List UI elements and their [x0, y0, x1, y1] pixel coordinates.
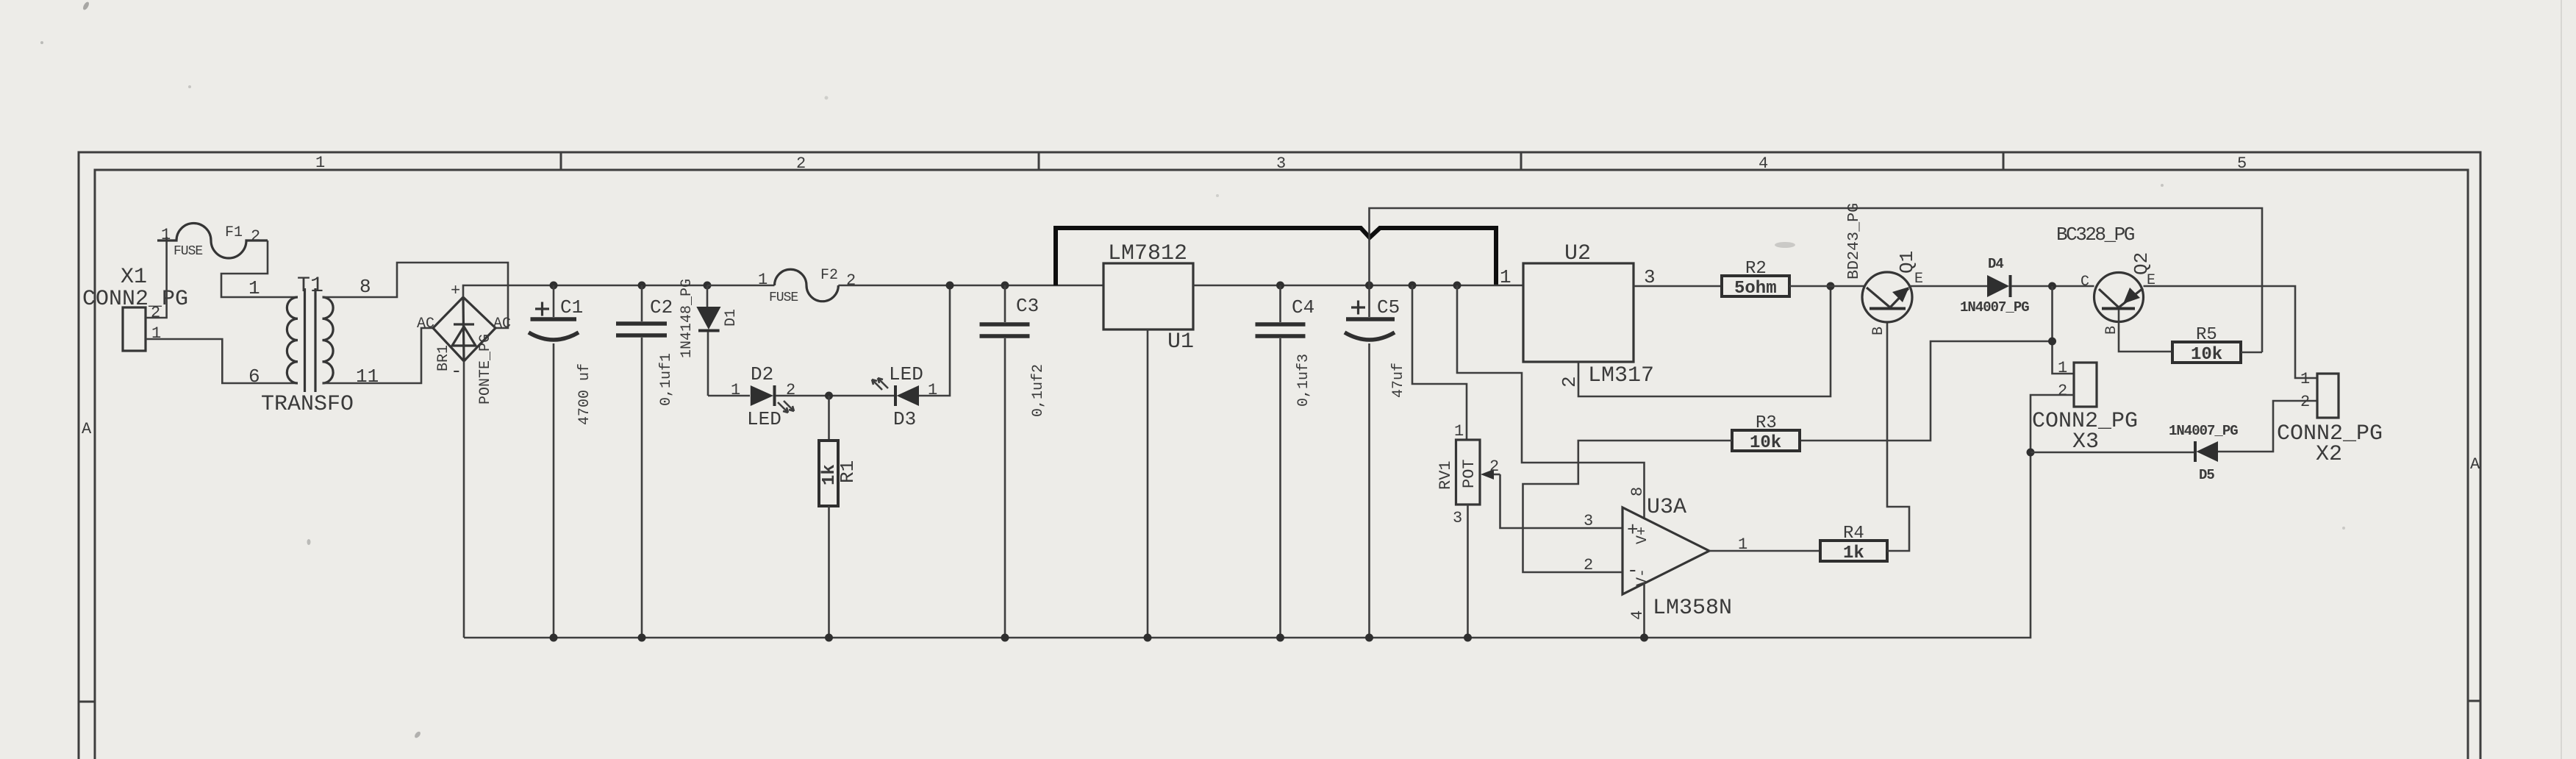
svg-text:R2: R2 [1745, 259, 1767, 279]
junction RV1 feed rail [1409, 282, 1417, 290]
junction R1 bus [825, 634, 833, 642]
svg-text:LM7812: LM7812 [1108, 241, 1187, 266]
svg-text:1N4007_PG: 1N4007_PG [2169, 423, 2238, 439]
svg-text:D3: D3 [893, 408, 916, 430]
potentiometer RV1 [1437, 422, 1500, 527]
resistor R1 [819, 396, 859, 638]
svg-text:BD243_PG: BD243_PG [1845, 203, 1863, 279]
svg-text:2: 2 [796, 154, 806, 173]
svg-text:R4: R4 [1843, 524, 1864, 544]
svg-text:5: 5 [2237, 154, 2247, 173]
wire T1 pin11 to BR1 AC left [323, 328, 434, 383]
thick black wire (pen edit) input bypass to U2 pin1 [1056, 228, 1496, 285]
svg-text:1: 1 [1500, 266, 1511, 288]
svg-text:10k: 10k [1750, 433, 1781, 453]
svg-text:FUSE: FUSE [769, 291, 798, 305]
resistor R3 [1732, 413, 1800, 453]
svg-text:5ohm: 5ohm [1734, 279, 1777, 299]
svg-text:2: 2 [251, 227, 260, 246]
svg-text:AC: AC [417, 316, 434, 332]
junction R3 node [2048, 338, 2056, 346]
rail D1 to fuse F2 [707, 285, 775, 287]
junction R1 top [825, 392, 833, 400]
wire rail to RV1 pin1 [1412, 285, 1467, 440]
junction D1 rail [704, 282, 712, 290]
resistor R5 [2172, 325, 2241, 365]
svg-text:1N4007_PG: 1N4007_PG [1960, 299, 2029, 316]
zone tick 1|2 [560, 152, 562, 170]
Q2 base bar [2102, 307, 2135, 310]
svg-text:T1: T1 [297, 274, 323, 299]
svg-text:B: B [2103, 326, 2120, 335]
junction C4 rail [1276, 282, 1284, 290]
junction C1 rail [550, 282, 558, 290]
svg-text:BC328_PG: BC328_PG [2056, 224, 2134, 246]
junction U3A pin4 bus [1640, 634, 1648, 642]
svg-text:1: 1 [248, 277, 260, 299]
resistor R2 [1722, 259, 1789, 299]
RV1 wiper arrow [1491, 474, 1500, 476]
wire RV1 pin3 to bus [1467, 505, 1469, 638]
T1 core [304, 288, 306, 392]
svg-text:1k: 1k [1843, 544, 1864, 563]
C5 plus sign [1351, 301, 1365, 315]
Q1 base bar [1870, 307, 1906, 310]
svg-text:0,1uf2: 0,1uf2 [1030, 364, 1047, 417]
ground bus [464, 452, 2031, 638]
wire R4 right to Q1 base [1887, 322, 1909, 551]
wire ground node to D5 [2031, 452, 2195, 454]
LED D3 [872, 363, 937, 430]
transistor Q2 BC328 [2056, 224, 2155, 335]
svg-text:A: A [82, 420, 92, 438]
transformer T1 [248, 274, 379, 417]
svg-text:1: 1 [758, 271, 768, 289]
wire rail to U3A pin8 [1457, 285, 1645, 519]
svg-text:LED: LED [747, 408, 781, 430]
svg-text:B: B [1870, 327, 1887, 335]
wire R3 right vertical [1800, 341, 2053, 441]
junction RV1 bus [1464, 634, 1472, 642]
wire Q2 base to R5 [2119, 310, 2172, 352]
wire U2 pin3 to R2 [1634, 285, 1722, 288]
capacitor C4 [1256, 285, 1315, 638]
svg-text:3: 3 [1276, 154, 1286, 173]
svg-text:2: 2 [151, 304, 160, 322]
wire RV1 wiper to U3A pin3 [1500, 474, 1623, 528]
resistor R4 [1820, 524, 1887, 563]
wire BR1 minus to ground bus [463, 361, 465, 638]
wire U2 pin2 loop to R2 output node [1578, 286, 1831, 396]
svg-text:1: 1 [161, 226, 171, 244]
zone tick 4|5 [2003, 152, 2005, 170]
Q2 emitter line with arrow [2119, 288, 2143, 307]
svg-text:V-: V- [1634, 569, 1651, 586]
D3 emission arrows [872, 378, 888, 390]
svg-text:11: 11 [356, 366, 379, 388]
junction C2 bus [638, 634, 646, 642]
svg-text:V+: V+ [1634, 527, 1651, 544]
svg-text:D1: D1 [723, 309, 740, 327]
svg-text:2: 2 [846, 271, 856, 290]
svg-text:C: C [2081, 274, 2089, 291]
svg-text:C5: C5 [1377, 296, 1400, 318]
Q2 collector line [2099, 289, 2119, 307]
border outer frame [79, 152, 2480, 759]
svg-text:+: + [451, 282, 460, 300]
svg-text:1: 1 [315, 154, 325, 172]
wire R2 to Q1 [1789, 285, 1865, 288]
svg-text:CONN2_PG: CONN2_PG [82, 287, 188, 312]
diode D5 [2169, 423, 2238, 483]
svg-text:1: 1 [731, 381, 740, 399]
junction C5 rail [1365, 282, 1373, 290]
svg-text:2: 2 [1489, 457, 1499, 476]
wire C5 node to top rail [1370, 208, 2263, 352]
svg-text:47uf: 47uf [1390, 363, 1407, 398]
svg-text:1: 1 [2058, 359, 2067, 377]
svg-text:C1: C1 [560, 296, 583, 318]
wire Q1 emitter to D4 [1910, 285, 1988, 288]
D2 emission arrows [778, 401, 794, 413]
row tick left [79, 701, 95, 703]
junction C2 rail [638, 282, 646, 290]
junction C3 bus [1001, 634, 1009, 642]
T1 secondary coil [323, 297, 334, 383]
junction U1 bus [1144, 634, 1152, 642]
zone tick 3|4 [1520, 152, 1523, 170]
connector X1 [123, 307, 146, 351]
svg-text:3: 3 [1644, 266, 1656, 288]
rail F2 to LM7812 [838, 285, 1103, 287]
svg-text:POT: POT [1460, 459, 1478, 488]
svg-text:LM317: LM317 [1588, 363, 1654, 388]
svg-text:3: 3 [1453, 509, 1462, 527]
junction C5 bus [1365, 634, 1373, 642]
junction C4 bus [1276, 634, 1284, 642]
svg-text:0,1uf1: 0,1uf1 [658, 353, 675, 406]
svg-text:C2: C2 [650, 296, 673, 318]
C1 plus sign [535, 302, 549, 316]
connector X2 [2277, 370, 2383, 467]
junction C3 rail [1001, 282, 1009, 290]
svg-text:F1: F1 [225, 224, 243, 241]
Q1 collector line [1867, 288, 1890, 307]
junction C1 bus [550, 634, 558, 642]
svg-text:R1: R1 [837, 460, 859, 483]
svg-text:PONTE_PG: PONTE_PG [477, 334, 494, 405]
svg-text:R5: R5 [2196, 325, 2217, 345]
svg-text:1N4148_PG: 1N4148_PG [679, 279, 695, 358]
scanner edge right [2561, 0, 2562, 759]
svg-text:3: 3 [1584, 512, 1593, 530]
fuse F1 [157, 224, 268, 259]
svg-text:X3: X3 [2072, 430, 2099, 455]
svg-text:-: - [451, 360, 462, 382]
capacitor C5 [1345, 285, 1407, 638]
capacitor C1 [529, 285, 593, 638]
svg-text:4700 uf: 4700 uf [576, 363, 593, 425]
bridge rectifier BR1 [417, 282, 511, 405]
wire X3 pin2 to ground node [2031, 395, 2074, 452]
svg-text:D4: D4 [1988, 256, 2003, 272]
regulator U2 LM317 [1500, 241, 1656, 388]
svg-text:X2: X2 [2316, 442, 2342, 467]
op-amp U3A [1584, 487, 1732, 621]
wire D4 to Q2 collector [2011, 285, 2094, 288]
svg-text:C4: C4 [1292, 296, 1314, 318]
capacitor C2 [616, 285, 675, 638]
svg-text:0,1uf3: 0,1uf3 [1295, 354, 1312, 407]
diode D1 [679, 279, 740, 396]
wire BR1 plus to rail [463, 285, 707, 297]
LED D2 [731, 363, 795, 430]
svg-text:U2: U2 [1564, 241, 1591, 266]
svg-text:TRANSFO: TRANSFO [261, 392, 354, 417]
svg-text:2: 2 [2058, 382, 2067, 400]
svg-text:F2: F2 [820, 267, 838, 284]
regulator U1 LM7812 [1103, 241, 1194, 354]
wire X1 pin1 to T1 pin6 [146, 339, 298, 383]
svg-text:RV1: RV1 [1437, 460, 1455, 490]
wire F1 pin2 to T1 pin1 [221, 240, 298, 297]
svg-text:BR1: BR1 [435, 345, 452, 371]
fuse F2 [775, 269, 839, 301]
T1 primary coil [287, 297, 298, 383]
svg-text:4: 4 [1759, 154, 1768, 173]
svg-text:D2: D2 [751, 363, 773, 385]
wire R5 right lead [2241, 352, 2262, 354]
svg-text:6: 6 [248, 366, 260, 388]
svg-text:LED: LED [889, 363, 923, 385]
wire R3 left to U3A pin2 [1523, 441, 1733, 572]
wire D2 to D3 [776, 395, 895, 397]
wire D1 to LED D2 [708, 395, 750, 397]
svg-text:E: E [1914, 271, 1923, 288]
row tick right [2468, 700, 2480, 702]
svg-text:FUSE: FUSE [173, 244, 202, 259]
svg-text:R3: R3 [1756, 413, 1777, 433]
junction D4 node [2048, 282, 2056, 291]
diode D4 [1960, 256, 2029, 316]
capacitor C3 [980, 285, 1048, 638]
junction ground node right [2027, 449, 2035, 457]
svg-text:U1: U1 [1167, 329, 1194, 354]
wire D4 node down to R3 node [2053, 286, 2075, 374]
svg-text:1: 1 [1738, 535, 1747, 554]
junction U3A V+ feed rail [1453, 282, 1461, 290]
wire X1 pin2 to fuse F1 [146, 237, 167, 318]
transistor Q1 BD243 [1845, 203, 1923, 335]
svg-text:1: 1 [2300, 370, 2310, 388]
svg-text:2: 2 [1559, 376, 1581, 388]
svg-text:LM358N: LM358N [1653, 596, 1732, 621]
svg-text:8: 8 [1628, 487, 1647, 496]
zone tick 2|3 [1038, 152, 1040, 170]
wire Q2 emitter to X2 pin1 [2144, 286, 2318, 378]
Q1 emitter line with arrow [1890, 288, 1908, 307]
wire U3A out to R4 [1709, 550, 1820, 552]
wire U3A pin4 to bus [1643, 583, 1645, 638]
junction R2 out node [1827, 282, 1835, 291]
svg-text:U3A: U3A [1647, 495, 1686, 520]
svg-text:2: 2 [1584, 556, 1593, 574]
svg-text:1: 1 [1454, 422, 1464, 441]
wire D5 to X2 pin2 [2218, 401, 2317, 452]
svg-text:X1: X1 [121, 265, 147, 290]
svg-text:2: 2 [2300, 393, 2310, 411]
wire D3 to rail [919, 285, 950, 396]
svg-text:C3: C3 [1016, 295, 1039, 317]
svg-text:8: 8 [359, 276, 371, 298]
svg-text:10k: 10k [2191, 345, 2222, 365]
svg-text:AC: AC [493, 316, 511, 332]
svg-text:A: A [2470, 455, 2480, 474]
rail U1 out [1193, 285, 1523, 287]
junction D3 rail [946, 282, 954, 290]
border inner frame [95, 170, 2468, 759]
svg-text:D5: D5 [2199, 467, 2214, 483]
connector X3 [2032, 359, 2138, 455]
wire U1 gnd lead [1147, 329, 1149, 638]
wire T1 pin8 to BR1 AC right [323, 263, 509, 328]
